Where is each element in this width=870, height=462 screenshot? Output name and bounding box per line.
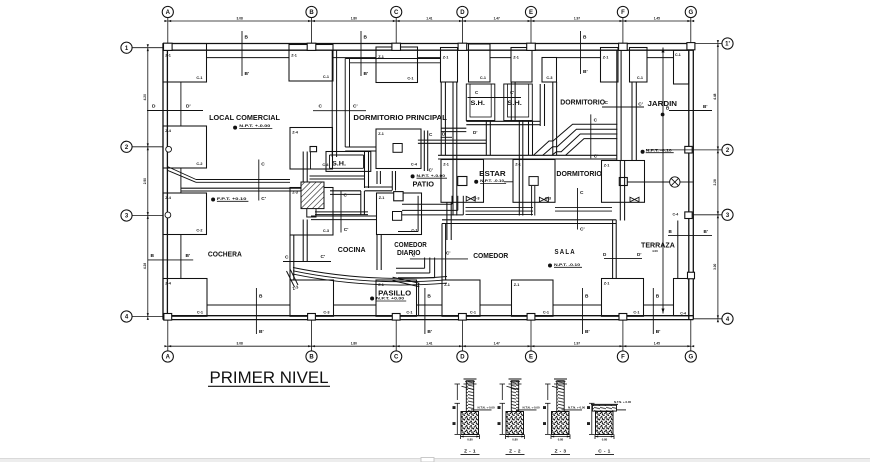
section C-C local comercial	[313, 104, 366, 111]
left grid bubbles 1-4	[121, 42, 132, 53]
svg-text:4.20: 4.20	[143, 94, 147, 100]
svg-text:C': C'	[429, 168, 433, 173]
svg-text:C-1: C-1	[411, 229, 417, 233]
ramp diagonal	[167, 167, 196, 183]
wall local comercial right	[332, 50, 336, 157]
leader row2 inner	[646, 149, 693, 151]
wall C3 to pasillo	[377, 235, 381, 271]
footing A1	[163, 44, 207, 83]
svg-text:C-3: C-3	[323, 311, 329, 315]
svg-text:D: D	[152, 104, 156, 110]
svg-text:B: B	[151, 253, 155, 259]
svg-text:Z-1: Z-1	[379, 196, 385, 200]
footing G1 corner	[674, 50, 689, 84]
svg-text:B: B	[583, 35, 587, 41]
detail Z-3	[543, 379, 586, 455]
footing E1	[511, 48, 557, 83]
svg-text:E: E	[529, 355, 533, 361]
svg-text:S.H.: S.H.	[471, 100, 486, 107]
wall stub estar to room	[532, 186, 535, 216]
svg-text:B: B	[309, 355, 314, 361]
triple wall lines under estar	[466, 208, 613, 215]
footing E2	[513, 160, 555, 203]
svg-text:D': D'	[473, 130, 477, 135]
section B-B bottom v3	[583, 288, 590, 335]
svg-text:C-2: C-2	[196, 229, 202, 233]
svg-text:C-1: C-1	[197, 311, 203, 315]
comedor diario SE nested corners	[393, 258, 435, 316]
svg-text:N.T.N. +-0.00: N.T.N. +-0.00	[478, 406, 496, 410]
svg-text:C-4: C-4	[680, 312, 686, 316]
footing F4	[602, 279, 644, 317]
svg-text:2.28: 2.28	[713, 179, 717, 185]
section B-B top 3	[581, 31, 588, 75]
svg-text:1.41: 1.41	[426, 342, 432, 346]
svg-text:COMEDOR: COMEDOR	[473, 251, 509, 260]
svg-text:C: C	[344, 193, 348, 199]
svg-text:N.P.T. -0.10: N.P.T. -0.10	[554, 263, 580, 267]
svg-text:Z-1: Z-1	[603, 56, 609, 60]
footing B4	[290, 280, 334, 316]
wall B3 to B4	[290, 235, 294, 280]
wall cocina top	[311, 212, 377, 220]
svg-text:B': B'	[704, 229, 708, 234]
svg-text:C-2: C-2	[196, 162, 202, 166]
svg-text:Z-1: Z-1	[443, 56, 449, 60]
svg-text:N.P.T. -0.10: N.P.T. -0.10	[646, 148, 672, 152]
svg-text:B': B'	[245, 71, 250, 77]
wall dormitorio principal box	[345, 59, 441, 148]
svg-text:C - 1: C - 1	[598, 449, 610, 455]
wall cocina right / comedor diario left	[447, 203, 451, 241]
svg-text:B: B	[364, 35, 368, 41]
svg-text:Z-1: Z-1	[443, 163, 449, 167]
svg-text:1.47: 1.47	[494, 342, 500, 346]
svg-text:1.97: 1.97	[574, 16, 580, 20]
footing A2	[163, 126, 207, 168]
svg-text:1.45: 1.45	[654, 16, 660, 20]
nested corner walls comedor diario	[398, 196, 463, 232]
footing A3	[163, 193, 207, 235]
wall below SH corridor	[466, 121, 532, 216]
footing A4	[163, 279, 207, 317]
section C-C jardin	[602, 100, 644, 107]
svg-text:C: C	[394, 10, 399, 16]
svg-text:Z-4: Z-4	[165, 129, 172, 133]
svg-text:C': C'	[638, 102, 643, 108]
svg-text:B: B	[259, 294, 263, 300]
label local comercial	[209, 113, 280, 122]
svg-text:B': B'	[656, 329, 661, 335]
section C-C sh rooms	[468, 90, 522, 98]
svg-text:B': B'	[427, 329, 432, 335]
svg-text:Z-1: Z-1	[514, 283, 520, 287]
svg-text:Z-4: Z-4	[165, 196, 172, 200]
svg-text:C': C'	[344, 227, 349, 233]
footing G4 corner	[674, 279, 689, 316]
wall patio left	[365, 151, 393, 191]
svg-text:G: G	[688, 10, 693, 16]
svg-text:Z-1: Z-1	[378, 132, 384, 136]
cimiento band top wall	[207, 57, 674, 59]
outer wall bottom	[163, 316, 693, 320]
svg-text:C': C'	[446, 251, 450, 256]
svg-text:Z-1: Z-1	[604, 164, 610, 168]
svg-text:2.90: 2.90	[143, 178, 147, 184]
svg-text:LOCAL COMERCIAL: LOCAL COMERCIAL	[209, 113, 280, 122]
svg-text:JARDIN: JARDIN	[648, 99, 678, 108]
stair hatch	[301, 147, 324, 209]
svg-text:B': B'	[585, 329, 590, 335]
svg-text:B: B	[309, 10, 314, 16]
bottom ui bar	[0, 458, 870, 462]
npt estar	[474, 179, 506, 184]
room S.H. 2	[504, 84, 533, 121]
footing F1	[601, 48, 648, 83]
wall hatch flank	[303, 152, 307, 263]
wall below SH-LC	[310, 176, 365, 179]
section B-B bottom 1	[148, 253, 193, 260]
svg-text:C-4: C-4	[673, 213, 679, 217]
svg-text:COCINA: COCINA	[338, 245, 366, 254]
svg-text:3.08: 3.08	[237, 342, 243, 346]
label dormitorio top	[560, 98, 605, 107]
label patio	[413, 180, 435, 189]
footing B1	[289, 45, 333, 82]
top grid bubbles A-G	[162, 6, 173, 17]
svg-text:Z-1: Z-1	[291, 54, 297, 58]
svg-text:SALA: SALA	[555, 247, 576, 256]
svg-text:C: C	[580, 190, 584, 196]
footing E4	[512, 280, 554, 316]
svg-text:1': 1'	[725, 42, 730, 48]
svg-text:C-3: C-3	[546, 76, 552, 80]
cimiento band bottom wall	[207, 304, 674, 306]
svg-text:C: C	[261, 162, 265, 168]
svg-text:Z-4: Z-4	[292, 131, 299, 135]
label jardin	[638, 99, 677, 108]
svg-text:1.47: 1.47	[494, 16, 500, 20]
wall patio east	[424, 131, 433, 173]
B2 square drop line	[310, 152, 312, 169]
npt sala	[548, 263, 582, 268]
section B-B terraza right	[668, 229, 712, 236]
svg-text:E: E	[529, 10, 533, 16]
svg-text:C: C	[285, 255, 289, 261]
outer wall top	[163, 44, 693, 51]
detail C-1	[587, 400, 632, 455]
svg-text:4.00: 4.00	[652, 249, 658, 253]
footing F2	[602, 161, 645, 203]
footing D1	[441, 44, 491, 82]
svg-text:Z-1: Z-1	[165, 54, 171, 58]
svg-text:C': C'	[321, 254, 326, 260]
svg-text:Z-1: Z-1	[378, 283, 384, 287]
svg-text:0.80: 0.80	[512, 438, 518, 442]
svg-text:C-1: C-1	[480, 76, 486, 80]
npt estar leader	[504, 181, 514, 183]
svg-text:C-1: C-1	[543, 311, 549, 315]
svg-text:N.T.N. +-0.00: N.T.N. +-0.00	[614, 400, 632, 404]
svg-text:C': C'	[510, 90, 514, 95]
label dormitorio 2	[556, 169, 601, 178]
bottom dimension line	[164, 320, 694, 352]
outer wall left	[163, 44, 167, 320]
svg-text:C-1: C-1	[637, 76, 643, 80]
svg-text:C': C'	[580, 227, 585, 233]
svg-text:1.41: 1.41	[426, 16, 432, 20]
cimiento band left wall	[180, 168, 182, 279]
wall cochera top	[181, 180, 302, 192]
svg-text:Z - 3: Z - 3	[555, 449, 567, 455]
npt dormitorio right	[641, 148, 674, 153]
svg-text:COCHERA: COCHERA	[208, 249, 242, 258]
top wall columns	[164, 43, 628, 50]
svg-text:D': D'	[186, 104, 191, 110]
svg-text:3.08: 3.08	[237, 16, 243, 20]
wall below local comercial	[330, 191, 364, 215]
wall estar upper stubs	[441, 121, 540, 131]
svg-text:0.80: 0.80	[602, 438, 608, 442]
wall dormitorio principal bottom	[345, 147, 376, 151]
svg-text:F.P.T. +0.10: F.P.T. +0.10	[217, 197, 247, 201]
svg-text:Z-1: Z-1	[515, 163, 521, 167]
section C-C center low	[283, 254, 331, 262]
svg-text:N.T.N. +-0.00: N.T.N. +-0.00	[568, 406, 586, 410]
wall between C2 and C3	[377, 171, 396, 191]
label comedor diario	[394, 240, 427, 257]
npt pasillo	[370, 297, 406, 302]
section C-C cochera	[259, 160, 266, 203]
svg-text:N.P.T. +-0.00: N.P.T. +-0.00	[239, 124, 270, 128]
right grid bubbles 1',2,3,4	[722, 38, 733, 49]
wall terraza left stub	[677, 221, 679, 279]
svg-text:1.45: 1.45	[654, 342, 660, 346]
svg-text:1.80: 1.80	[351, 16, 357, 20]
svg-text:D: D	[460, 10, 465, 16]
bowtie E2	[539, 197, 548, 202]
svg-text:Z-4: Z-4	[165, 282, 172, 286]
detail Z-2	[498, 379, 541, 455]
svg-text:DORMITORIO: DORMITORIO	[556, 169, 601, 178]
svg-text:N.P.T. +0.00: N.P.T. +0.00	[376, 297, 404, 301]
section C-C comedor diario	[410, 251, 468, 259]
footing D4	[442, 280, 480, 316]
svg-text:N.P.T. +-0.00: N.P.T. +-0.00	[417, 174, 446, 178]
svg-text:DIARIO: DIARIO	[397, 248, 420, 257]
svg-text:TERRAZA: TERRAZA	[641, 241, 675, 250]
left dimension line	[132, 44, 163, 320]
wall estar row top	[438, 155, 617, 159]
svg-text:ESTAR: ESTAR	[479, 169, 506, 178]
label terraza	[641, 241, 675, 253]
svg-text:A: A	[166, 355, 171, 361]
label cocina	[338, 245, 366, 254]
svg-text:Z-1: Z-1	[604, 282, 610, 286]
svg-text:C-1: C-1	[196, 76, 202, 80]
npt cochera	[211, 197, 248, 202]
wall dormitorio left	[540, 84, 544, 126]
pasillo hook diagonal	[287, 270, 299, 288]
pasillo curved walls	[293, 268, 447, 286]
bowtie F2	[630, 197, 639, 202]
svg-text:C: C	[394, 355, 399, 361]
svg-text:C: C	[319, 104, 323, 110]
svg-text:PATIO: PATIO	[413, 180, 435, 189]
section B-B jardin right	[669, 104, 712, 111]
svg-text:D': D'	[637, 252, 641, 257]
svg-text:B': B'	[583, 69, 588, 75]
svg-text:D: D	[460, 355, 465, 361]
section B-B bottom v4	[653, 288, 660, 335]
right dimension line	[693, 40, 722, 322]
svg-text:C-3: C-3	[323, 229, 329, 233]
svg-text:C-1: C-1	[675, 53, 681, 57]
wall E axis verticals	[511, 82, 556, 155]
footing B3	[290, 188, 333, 236]
svg-text:C-1: C-1	[406, 311, 412, 315]
column on C3 top edge	[394, 192, 403, 201]
svg-text:C-4: C-4	[411, 163, 418, 167]
npt local comercial	[233, 124, 272, 129]
svg-text:F: F	[621, 10, 625, 16]
svg-text:B: B	[656, 294, 660, 300]
svg-text:B: B	[427, 294, 431, 300]
svg-text:S.H.: S.H.	[332, 160, 346, 167]
wall F axis vertical	[617, 50, 625, 220]
section C-C sala	[578, 188, 585, 233]
title PRIMER NIVEL	[208, 369, 330, 387]
svg-text:4.48: 4.48	[713, 93, 717, 99]
section D-D left	[147, 104, 203, 111]
wall D axis verticals	[441, 82, 457, 216]
svg-text:C-1: C-1	[323, 75, 329, 79]
svg-text:N.P.T. -0.10: N.P.T. -0.10	[480, 179, 504, 183]
wall cochera left stub	[180, 82, 182, 126]
footing C2	[376, 129, 421, 169]
section B-B top 2	[361, 31, 368, 77]
sala comedor room walls	[442, 220, 616, 280]
label estar	[479, 169, 506, 178]
svg-text:Z-1: Z-1	[513, 56, 519, 60]
footing C4	[376, 280, 417, 316]
svg-text:A: A	[166, 10, 171, 16]
svg-text:N.T.N. +-0.00: N.T.N. +-0.00	[523, 406, 541, 410]
footing D2	[441, 160, 484, 203]
label comedor	[473, 251, 509, 260]
svg-text:B': B'	[364, 71, 369, 77]
footing C1	[376, 47, 418, 83]
section C-C cocina	[341, 191, 348, 234]
svg-text:DORMITORIO PRINCIPAL: DORMITORIO PRINCIPAL	[353, 113, 447, 122]
svg-text:0.80: 0.80	[467, 438, 473, 442]
section C-C dormitorio jardin	[591, 114, 599, 159]
svg-text:0.80: 0.80	[558, 438, 564, 442]
svg-text:C': C'	[261, 196, 266, 202]
room S.H. small (local comercial)	[326, 152, 371, 172]
right wall columns	[673, 43, 695, 279]
svg-text:PRIMER NIVEL: PRIMER NIVEL	[210, 369, 329, 387]
svg-text:1.80: 1.80	[351, 342, 357, 346]
svg-text:1.97: 1.97	[574, 342, 580, 346]
svg-text:Z-1: Z-1	[444, 283, 450, 287]
footing B2	[290, 128, 333, 170]
jardin leader arrow	[661, 48, 670, 314]
svg-text:B': B'	[186, 253, 191, 259]
wall jardin left	[632, 82, 636, 161]
stepped wall jardin	[534, 124, 618, 155]
svg-text:C-1: C-1	[470, 311, 476, 315]
svg-text:3.00: 3.00	[713, 263, 717, 269]
detail Z-1	[453, 379, 496, 455]
label cochera	[208, 249, 242, 258]
section B-B top 1	[236, 31, 249, 77]
label dormitorio principal	[353, 113, 447, 122]
svg-text:C-1: C-1	[407, 77, 413, 81]
svg-text:B': B'	[259, 329, 264, 335]
svg-text:B': B'	[703, 104, 707, 109]
section B-B bottom v2	[425, 288, 432, 335]
npt patio	[411, 174, 447, 179]
section B-B bottom v1	[256, 288, 263, 335]
top dimension line	[164, 16, 694, 43]
section cut circle X	[628, 177, 694, 187]
svg-text:DORMITORIO: DORMITORIO	[560, 98, 605, 107]
svg-text:F: F	[621, 355, 625, 361]
svg-text:Z - 1: Z - 1	[464, 449, 476, 455]
svg-text:C: C	[594, 118, 598, 124]
svg-text:B: B	[245, 35, 249, 41]
svg-text:4.28: 4.28	[143, 263, 147, 269]
section D-D patio	[441, 130, 478, 137]
svg-text:C-1: C-1	[633, 311, 639, 315]
svg-text:C': C'	[353, 104, 358, 110]
outer wall right	[689, 44, 694, 320]
bottom wall columns	[164, 314, 627, 321]
svg-text:B: B	[585, 294, 589, 300]
label sala	[555, 247, 576, 256]
bottom grid bubbles A-G	[162, 351, 173, 362]
room S.H. 1	[466, 84, 495, 121]
svg-text:G: G	[688, 355, 693, 361]
label pasillo	[378, 288, 411, 297]
bowtie D2	[466, 196, 475, 201]
footing C3	[377, 193, 422, 235]
wall patio top right	[418, 140, 486, 143]
section D-D sala	[603, 252, 642, 258]
svg-text:Z - 2: Z - 2	[509, 449, 521, 455]
left wall door circles	[165, 146, 172, 218]
wall below SH rooms	[486, 121, 532, 156]
